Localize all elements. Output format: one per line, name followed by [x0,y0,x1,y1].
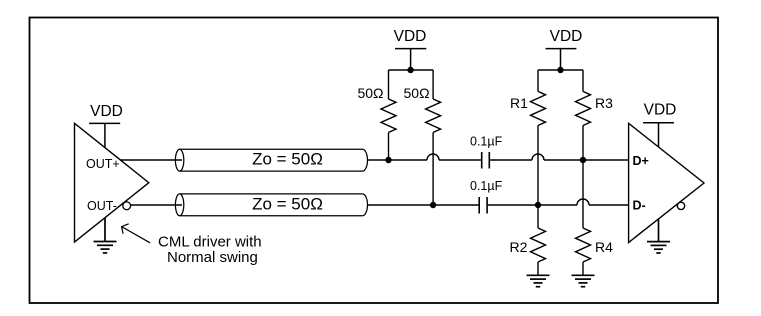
resistor R1 [531,70,546,205]
VDD symbol (termination) [395,49,426,70]
junction node R1/R2 with bottom rail [535,202,541,208]
svg-text:OUT+: OUT+ [86,157,120,171]
crossover hop (bottom rail over R3 leg) [577,199,589,205]
wire joining R1/R3 tops [538,69,583,71]
resistor 50 ohm (right) [426,70,441,205]
wire T2 to capacitor C2 (bottom rail) [367,204,628,206]
capacitor C1 0.1uF (top) [482,152,490,169]
wire R3 through bottom rail to R4 [582,160,584,228]
wire OUT+ to T1 [120,159,182,161]
resistor R2 [531,205,546,275]
junction node R3 with top rail [580,157,586,163]
crossover hop (top rail over 50ohm right leg) [427,154,439,160]
annotation arrow [122,224,150,243]
crossover hop (top rail over R1 leg) [532,154,544,160]
svg-text:VDD: VDD [90,103,123,120]
transmission line T2 [175,194,367,216]
inversion bubble OUT- [123,202,131,210]
svg-text:VDD: VDD [550,28,583,45]
VDD symbol (receiver) [643,123,674,147]
ground (receiver) [647,219,670,253]
svg-text:0.1µF: 0.1µF [470,135,503,149]
svg-text:R1: R1 [510,95,528,111]
ground (R4) [572,275,595,286]
svg-text:R2: R2 [510,239,528,255]
wire T1 to capacitor C1 (top rail) [367,159,628,161]
junction node T1/50ohm left [385,157,391,163]
capacitor C2 0.1uF (bottom) [479,197,487,214]
receiver U2 triangle [629,123,704,242]
ground (R2) [527,275,550,286]
svg-text:R4: R4 [595,239,613,255]
resistor R4 [576,228,591,275]
svg-text:50Ω: 50Ω [357,85,383,101]
junction node T2/50ohm right [430,202,436,208]
svg-text:OUT-: OUT- [87,199,117,213]
resistor R3 [576,70,591,160]
VDD symbol (bias network) [546,49,577,70]
ground (driver) [94,218,117,253]
resistor 50 ohm (left) [381,70,396,160]
junction node at bias VDD [557,67,563,73]
VDD symbol (driver) [89,123,120,147]
wire OUT- to T2 [131,204,182,206]
wire joining 50 ohm resistor tops [389,69,434,71]
svg-text:Zo = 50Ω: Zo = 50Ω [252,195,323,214]
junction node at termination VDD [407,67,413,73]
svg-text:Zo = 50Ω: Zo = 50Ω [252,150,323,169]
svg-text:VDD: VDD [644,102,677,119]
transmission line T1 [175,149,367,171]
svg-text:Normal swing: Normal swing [167,249,258,266]
inversion bubble (receiver output) [677,202,684,209]
svg-text:0.1µF: 0.1µF [470,179,503,193]
svg-text:D-: D- [633,199,646,213]
svg-text:50Ω: 50Ω [404,85,430,101]
svg-text:D+: D+ [633,154,649,168]
svg-text:VDD: VDD [394,28,427,45]
svg-text:R3: R3 [595,95,613,111]
CML driver U1 triangle [75,123,149,242]
